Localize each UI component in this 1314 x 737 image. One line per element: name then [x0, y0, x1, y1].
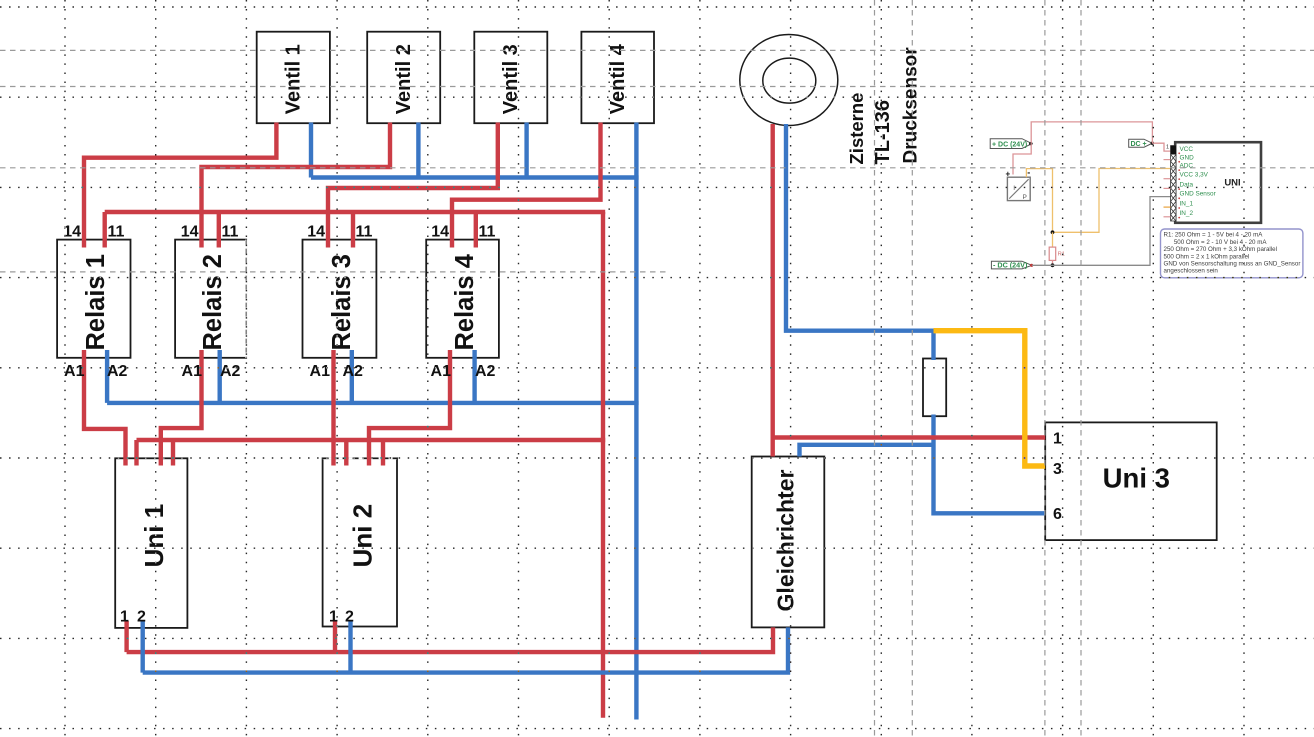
svg-text:VCC: VCC: [1180, 146, 1194, 153]
valve box Ventil 4: [581, 32, 654, 124]
svg-text:TL-136: TL-136: [872, 100, 894, 164]
svg-text:14: 14: [307, 224, 325, 241]
svg-text:A2: A2: [343, 363, 364, 380]
wire Uni2 pin2 drop: [348, 621, 352, 673]
wire mid bus drop Uni1 b: [171, 440, 175, 466]
svg-text:2: 2: [137, 609, 146, 626]
svg-text:11: 11: [222, 224, 239, 241]
wire yellow sensor signal to Uni3 pin 3: [934, 331, 1046, 466]
svg-text:A1: A1: [182, 363, 203, 380]
svg-text:Relais 4: Relais 4: [451, 253, 479, 350]
svg-text:1: 1: [1053, 431, 1062, 448]
svg-text:500 Ohm = 2 x 1 kOhm parallel: 500 Ohm = 2 x 1 kOhm parallel: [1164, 253, 1250, 260]
svg-text:Uni 2: Uni 2: [347, 504, 377, 568]
svg-text:1: 1: [1166, 145, 1169, 151]
svg-text:GND: GND: [1180, 154, 1195, 161]
svg-text:A1: A1: [64, 363, 85, 380]
wire Relais3 A2 drop: [350, 350, 354, 403]
dashed top edge of Uni 2: [323, 457, 397, 459]
UNI pin labels: [1180, 146, 1217, 217]
svg-text:Relais 3: Relais 3: [328, 254, 356, 350]
wire Ventil1 red to Relais1 pin14: [84, 123, 276, 248]
svg-text:VCC 3,3V: VCC 3,3V: [1180, 172, 1209, 179]
wire Gleichrichter top blue: [800, 445, 934, 457]
controller box Uni 3: [1045, 422, 1217, 540]
wire salmon DC+ to UNI pin1: [1152, 143, 1171, 151]
wire Relais1 A1 to Uni1: [84, 350, 126, 466]
wire resistor to Uni3 pin 6: [934, 415, 1046, 514]
svg-text:A2: A2: [220, 363, 241, 380]
wire Uni1 pin2 drop: [140, 621, 144, 673]
svg-text:1: 1: [120, 609, 129, 626]
wire red mid bus: [137, 438, 606, 442]
svg-text:500 Ohm = 2 - 10 V bei 4 - 20: 500 Ohm = 2 - 10 V bei 4 - 20 mA: [1164, 239, 1268, 246]
svg-text:Ventil 4: Ventil 4: [607, 43, 629, 114]
svg-text:A2: A2: [107, 363, 128, 380]
wire Relais2 A1 to Uni1: [161, 350, 202, 466]
net label DC +: [1129, 139, 1153, 147]
wire Relais4 A1 to Uni2: [369, 350, 450, 466]
wire Ventil2 blue drop: [416, 123, 420, 178]
wire red pin11 bus: [105, 210, 606, 214]
wire orange to R1: [1052, 232, 1054, 247]
wire Ventil3 red to Relais3 pin14: [328, 123, 498, 248]
wire Uni1 pin1 drop: [124, 621, 128, 652]
svg-text:11: 11: [356, 224, 373, 241]
wire mid bus drop Uni2 b: [381, 440, 385, 466]
svg-text:+: +: [1005, 169, 1010, 178]
pressure sensor TL-136: [740, 35, 838, 126]
svg-text:GND Sensor: GND Sensor: [1180, 191, 1217, 198]
UNI pin dots: [1178, 152, 1180, 218]
svg-text:250 Ohm = 270 Ohm + 3,3 kOhm p: 250 Ohm = 270 Ohm + 3,3 kOhm parallel: [1164, 246, 1278, 253]
relay box Relais 3: [303, 240, 377, 358]
dashed right edge of Relais 2: [245, 240, 247, 358]
wire blue A2 bus: [107, 401, 639, 405]
svg-text:Ventil 1: Ventil 1: [282, 44, 304, 114]
wire Ventil4 red to Relais4 pin14: [452, 123, 601, 248]
wire Relais1 A2 drop: [105, 350, 109, 403]
wire mid bus drop Uni1 a: [134, 440, 138, 466]
svg-text:Data: Data: [1180, 181, 1194, 188]
svg-text:A1: A1: [431, 363, 452, 380]
wire mid bus drop Uni2 a: [344, 440, 348, 466]
power supply box Uni 1: [115, 458, 187, 628]
wire salmon +DC top run: [1031, 122, 1152, 144]
svg-text:14: 14: [181, 224, 199, 241]
svg-text:- DC (24V): - DC (24V): [993, 261, 1028, 270]
svg-text:IN_1: IN_1: [1180, 200, 1194, 207]
wire blue bottom bus to Gleichrichter: [143, 627, 788, 672]
svg-text:Uni 3: Uni 3: [1103, 463, 1170, 494]
wire orange sensor loop to ADC: [1026, 169, 1170, 233]
svg-text:Relais 1: Relais 1: [82, 254, 110, 350]
wire Uni2 pin1 drop: [333, 621, 337, 652]
svg-text:angeschlossen sein: angeschlossen sein: [1164, 268, 1219, 275]
svg-text:6: 6: [1053, 506, 1062, 523]
wire sensor red vertical: [771, 124, 775, 457]
wire Relais3 A1 to Uni2: [331, 350, 335, 466]
wire R1 to gnd rail: [1052, 260, 1054, 265]
wire Relais4 pin11 drop: [474, 212, 478, 248]
svg-text:R1: R1: [1058, 252, 1065, 258]
rectifier box Gleichrichter: [752, 457, 825, 628]
wire Ventil2 red to Relais2 pin14: [202, 123, 391, 248]
relay box Relais 4: [426, 240, 499, 358]
svg-text:P: P: [1023, 194, 1027, 201]
svg-text:14: 14: [431, 224, 449, 241]
svg-text:3: 3: [1053, 461, 1062, 478]
svg-text:2: 2: [345, 609, 354, 626]
wire blue valve bus: [311, 175, 639, 179]
svg-text:I: I: [1013, 185, 1015, 192]
net label +DC 24V: [990, 139, 1032, 149]
wire gray gnd rail to GND Sensor: [1032, 197, 1171, 266]
wire Relais4 A2 drop: [472, 350, 476, 403]
svg-text:R1: 250 Ohm = 1 - 5V bei 4 - 2: R1: 250 Ohm = 1 - 5V bei 4 - 20 mA: [1164, 232, 1264, 239]
wire Relais2 pin11 drop: [217, 212, 221, 248]
svg-text:Zisterne: Zisterne: [846, 93, 867, 165]
svg-text:Gleichrichter: Gleichrichter: [773, 470, 799, 612]
junction dot orange: [1051, 230, 1055, 234]
wire red to Uni3 pin 1: [773, 435, 1045, 439]
svg-text:ADC: ADC: [1180, 163, 1194, 170]
UNI controller box: [1175, 142, 1261, 223]
net label -DC 24V: [991, 261, 1031, 269]
svg-text:14: 14: [63, 224, 81, 241]
wire red long vertical: [601, 212, 605, 718]
svg-text:Drucksensor: Drucksensor: [901, 47, 922, 164]
valve box Ventil 1: [257, 32, 330, 124]
wire Ventil3 blue drop: [524, 123, 528, 178]
wire Relais3 pin11 drop: [351, 212, 355, 248]
note box R1 values: [1161, 229, 1303, 278]
svg-text:11: 11: [108, 224, 125, 241]
wire Relais1 pin11 drop: [102, 212, 106, 248]
UNI pin stubs: [1164, 159, 1171, 161]
resistor R1: [1049, 247, 1056, 260]
svg-text:Uni 1: Uni 1: [139, 504, 169, 568]
wire red bottom bus to Gleichrichter: [127, 627, 773, 652]
valve box Ventil 2: [367, 32, 440, 124]
resistor R (divider): [923, 359, 946, 417]
svg-text:Ventil 2: Ventil 2: [393, 44, 415, 114]
svg-text:Relais 2: Relais 2: [199, 254, 227, 350]
svg-text:11: 11: [479, 224, 496, 241]
relay box Relais 2: [175, 240, 246, 358]
svg-text:A2: A2: [475, 363, 496, 380]
svg-text:A1: A1: [310, 363, 331, 380]
wire Ventil1 blue drop: [309, 123, 313, 178]
wire Ventil4 blue long vertical: [634, 123, 638, 720]
svg-text:GND von Sensorschaltung muss a: GND von Sensorschaltung muss an GND_Sens…: [1164, 261, 1301, 268]
svg-text:IN_2: IN_2: [1180, 210, 1194, 217]
relay box Relais 1: [57, 240, 130, 358]
wire sensor blue to resistor: [786, 124, 934, 360]
junction dot gnd: [1051, 263, 1055, 267]
wire salmon +DC to sensor: [1013, 144, 1031, 175]
svg-text:+ DC (24V): + DC (24V): [992, 141, 1027, 148]
wire Relais2 A2 drop: [217, 350, 221, 403]
UNI pin header strip: [1171, 146, 1176, 221]
sensor symbol square: [1007, 177, 1030, 200]
valve box Ventil 3: [474, 32, 547, 124]
power supply box Uni 2: [323, 458, 397, 626]
MINI SCHEMATIC: [990, 122, 1303, 278]
svg-text:DC +: DC +: [1131, 141, 1147, 148]
BOXES: [57, 32, 1217, 628]
